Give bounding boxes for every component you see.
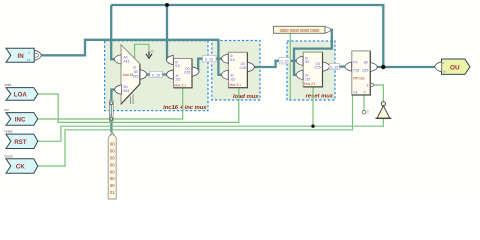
wire adder B to splitter and probe [111, 90, 115, 133]
svg-text:01: 01 [110, 190, 115, 195]
svg-text:I15: I15 [230, 58, 235, 62]
svg-text:INC: INC [15, 116, 26, 123]
svg-text:00: 00 [110, 142, 115, 147]
svg-text:O15: O15 [240, 66, 246, 70]
pin fan mux1 in0 [221, 54, 228, 63]
inverter on E [376, 102, 392, 119]
probe binary display [108, 132, 116, 199]
wire adder S to inc mux input1 [146, 73, 168, 75]
wire label 0..15 reset mux out [329, 63, 339, 69]
svg-text:inc16 + inc mux: inc16 + inc mux [163, 105, 207, 111]
svg-text:LOA: LOA [14, 91, 28, 98]
svg-text:P0: P0 [353, 60, 357, 64]
node junction rail/incmux [165, 3, 169, 7]
svg-text:00: 00 [110, 176, 115, 181]
wire carry to ground [135, 44, 149, 60]
svg-text:CK: CK [16, 164, 25, 171]
mux load Mux2:1 [221, 52, 254, 87]
pin fan mux2 in1 [296, 70, 303, 79]
node junction RST line [311, 125, 314, 128]
svg-text:J15: J15 [230, 77, 235, 81]
svg-text:A15: A15 [124, 60, 130, 64]
svg-text:J15: J15 [175, 78, 180, 82]
svg-text:RST: RST [14, 139, 27, 146]
pin fan adder B [115, 85, 122, 94]
svg-text:Q15: Q15 [362, 69, 368, 73]
mux inc Mux2:1 [166, 55, 199, 88]
svg-text:B15: B15 [124, 89, 130, 93]
svg-text:00: 00 [110, 149, 115, 154]
input pin LOA [5, 83, 38, 100]
svg-text:J15: J15 [305, 77, 310, 81]
constant 0000000000000000 [274, 26, 331, 33]
svg-text:Mux 2:1: Mux 2:1 [174, 83, 186, 87]
wire probe tap [289, 33, 291, 99]
pin register E [371, 83, 375, 87]
selection box reset mux [287, 41, 335, 100]
svg-text:OU: OU [450, 65, 460, 72]
wire LOA to load mux select [38, 88, 239, 123]
svg-text:I15: I15 [305, 60, 310, 64]
pin fan mux1 out [248, 62, 255, 71]
svg-text:0: 0 [152, 50, 154, 54]
svg-text:00: 00 [110, 162, 115, 167]
svg-text:00: 00 [110, 169, 115, 174]
input pin CK [5, 154, 38, 173]
svg-text:clock: clock [5, 154, 13, 158]
input pin RST [5, 130, 38, 149]
register PiPo16 [345, 51, 378, 95]
wire load mux out to reset mux input0 [254, 61, 297, 67]
input pin INC [5, 108, 38, 125]
wire register Q to OU [375, 66, 435, 68]
mux reset Mux2:1 [296, 52, 330, 87]
svg-text:00: 00 [110, 156, 115, 161]
svg-text:S15: S15 [133, 75, 139, 79]
wire reset mux select branch [312, 87, 314, 127]
wire label 0..15 adder S [150, 71, 162, 77]
selection box load mux [212, 41, 260, 101]
wire top rail [111, 5, 383, 67]
svg-text:0..15: 0..15 [152, 74, 160, 78]
pin fan adder S [140, 70, 147, 80]
pin fan mux0 in0 [166, 55, 173, 64]
svg-text:reset: reset [5, 130, 13, 134]
wire label 0..15 load mux out [279, 58, 290, 64]
pin fan mux2 in0 [296, 56, 303, 65]
wire constant zero to reset mux input1 [294, 30, 332, 75]
wire rail branch to inc mux input0 [166, 5, 168, 60]
svg-text:reset mux: reset mux [306, 94, 334, 100]
wire CK to register clock [38, 95, 353, 166]
wire IN bus to adder A and top rail [41, 5, 225, 75]
svg-text:Ck: Ck [353, 91, 357, 95]
svg-text:P15: P15 [353, 69, 359, 73]
wire RST to reset mux select and inverter [38, 119, 384, 142]
pin fan mux0 out [192, 67, 199, 76]
svg-text:load: load [5, 83, 12, 87]
svg-text:0..15: 0..15 [205, 57, 213, 61]
svg-text:PiPo16: PiPo16 [353, 77, 364, 81]
pin fan mux2 out [323, 62, 330, 71]
svg-text:O15: O15 [184, 71, 190, 75]
svg-text:0..15: 0..15 [330, 65, 338, 69]
wire register E from inverter [371, 85, 384, 102]
svg-text:IN: IN [18, 53, 25, 60]
wire register C stub [363, 95, 365, 110]
wire reset mux out to register D [329, 65, 347, 67]
pin fan mux0 in1 [166, 70, 173, 79]
pin fan register Q [371, 63, 378, 72]
adder Add16 [114, 45, 147, 104]
node junction Q feedback [381, 65, 385, 69]
pin fan register D [345, 62, 352, 71]
pin fan mux1 in1 [221, 70, 228, 79]
svg-text:Mux 2:1: Mux 2:1 [229, 83, 241, 87]
svg-text:Mux 2:1: Mux 2:1 [304, 82, 316, 86]
wire inc mux out to load mux input0 [198, 59, 225, 72]
wire INC to inc mux select [38, 88, 183, 120]
svg-text:I15: I15 [175, 64, 180, 68]
svg-text:Ci: Ci [133, 66, 136, 70]
pin fan adder A [114, 55, 121, 64]
svg-text:Q0: Q0 [364, 60, 369, 64]
node open pin register C [362, 110, 366, 114]
ground [146, 52, 152, 59]
svg-text:0000 0000 0000 0000: 0000 0000 0000 0000 [280, 28, 321, 33]
svg-text:inc: inc [5, 108, 10, 112]
output pin OU [435, 59, 470, 74]
svg-text:S0: S0 [134, 70, 138, 74]
svg-text:00: 00 [110, 183, 115, 188]
input pin IN [6, 48, 41, 62]
svg-text:0..15: 0..15 [281, 60, 289, 64]
svg-text:O15: O15 [315, 66, 321, 70]
selection box inc16 + inc mux [105, 41, 208, 111]
svg-text:load mux: load mux [233, 94, 259, 100]
wire label 0..15 inc mux out [203, 55, 217, 62]
svg-text:15: 15 [442, 70, 446, 74]
splitter on probe wire [109, 101, 113, 122]
svg-text:15: 15 [27, 58, 31, 62]
